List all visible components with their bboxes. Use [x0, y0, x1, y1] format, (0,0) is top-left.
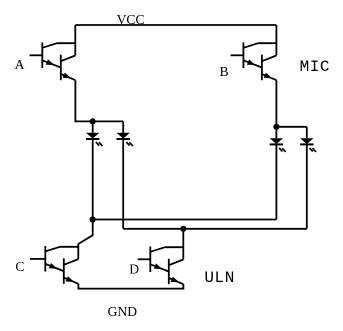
transistor QC2: [64, 258, 79, 284]
transistor QB2: [262, 55, 277, 80]
transistor QA1: [30, 43, 61, 69]
wire net X (D1/D3 cathodes to C collector): [93, 219, 277, 221]
wire QA collector junction: [57, 42, 75, 44]
wire B collector to VCC: [275, 25, 277, 56]
transistor QA2: [61, 55, 76, 80]
wire GND rail: [78, 284, 183, 289]
wire VCC rail: [75, 24, 276, 26]
svg-text:VCC: VCC: [117, 12, 145, 27]
wire B emitter down to right LED node: [275, 80, 277, 127]
LED D3 emission arrows: [279, 148, 286, 152]
input label A: [15, 57, 25, 72]
label ULN: [204, 269, 234, 287]
wire D collector to net Y: [182, 229, 184, 260]
wire QB collector junction: [258, 42, 276, 44]
svg-text:GND: GND: [108, 304, 138, 319]
transistor QD2: [169, 259, 184, 285]
wire C collector to net X: [78, 220, 92, 260]
wire QC collector junction: [60, 246, 78, 248]
net label GND: [108, 304, 138, 319]
junction dot left LED node: [90, 118, 96, 124]
junction dot right LED node: [273, 124, 279, 130]
wire net Y (D2/D4 cathodes to D collector): [123, 228, 307, 230]
wire right LED node across: [276, 126, 306, 128]
LED D2 emission arrows: [126, 142, 133, 146]
LED D1: [86, 133, 99, 220]
wire A emitter down to LED node: [75, 80, 92, 121]
wire QD collector junction: [165, 246, 183, 248]
junction dot net X: [90, 216, 96, 222]
label MIC: [300, 58, 330, 76]
input label B: [220, 64, 229, 79]
svg-text:A: A: [15, 57, 25, 72]
transistor QC1: [30, 246, 63, 272]
net label VCC: [117, 12, 145, 27]
svg-text:MIC: MIC: [300, 58, 330, 76]
svg-text:D: D: [129, 262, 139, 277]
svg-text:ULN: ULN: [204, 269, 234, 287]
wire into LED D3: [275, 127, 277, 138]
LED D4 emission arrows: [310, 148, 317, 152]
wire into LED D4: [306, 127, 308, 138]
input label D: [129, 262, 139, 277]
transistor QD1: [138, 247, 169, 273]
LED D1 emission arrows: [96, 142, 103, 146]
input label C: [15, 259, 24, 274]
svg-text:C: C: [15, 259, 24, 274]
wire into LED D2: [122, 121, 124, 132]
LED D3: [270, 138, 283, 219]
LED D2: [117, 133, 130, 229]
wire into LED D1: [92, 121, 94, 132]
wire left LED node across: [93, 120, 124, 122]
LED D4: [300, 138, 313, 229]
transistor QB1: [231, 43, 262, 69]
junction dot net Y: [180, 226, 186, 232]
svg-text:B: B: [220, 64, 229, 79]
wire A collector to VCC: [74, 25, 76, 56]
